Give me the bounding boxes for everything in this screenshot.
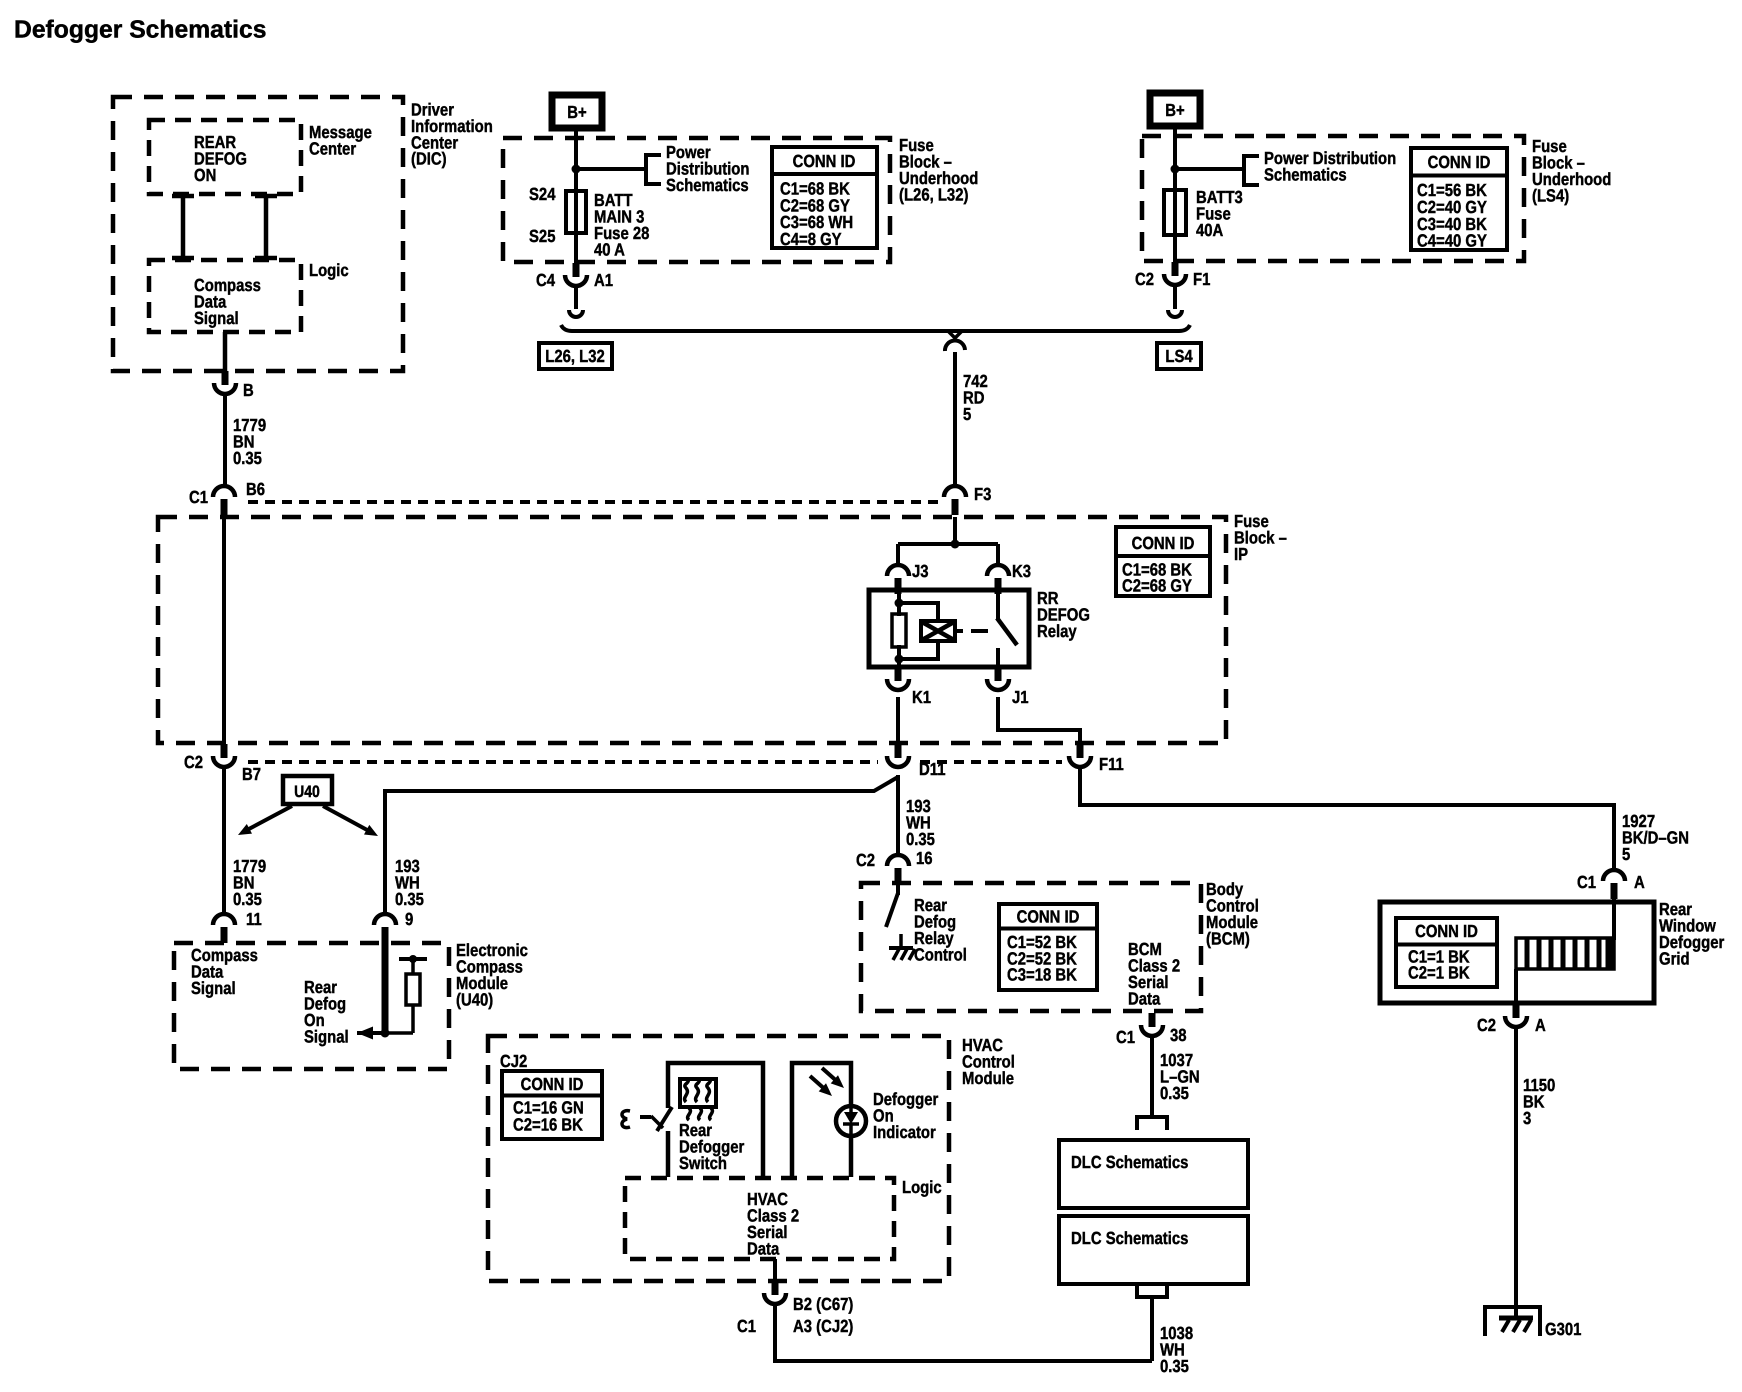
svg-text:(L26, L32): (L26, L32): [899, 185, 968, 205]
callout box U40: [283, 776, 332, 804]
battery feed B+ 2: [1150, 93, 1200, 126]
svg-text:C4=8 GY: C4=8 GY: [780, 229, 842, 249]
label wire 742 RD 5: [963, 371, 988, 424]
svg-text:C1: C1: [189, 487, 208, 507]
fuse block underhood L26 L32 dashed box: [503, 138, 890, 262]
svg-text:Relay: Relay: [1037, 621, 1077, 641]
relay solenoid X box: [921, 621, 955, 641]
svg-text:F1: F1: [1193, 269, 1211, 289]
label box L26 L32: [539, 343, 612, 369]
rear defogger switch blade: [651, 1107, 672, 1131]
wire F3 into relay feed: [953, 517, 957, 544]
svg-text:3: 3: [1523, 1108, 1532, 1128]
connector C2 A grid: [1477, 1004, 1546, 1035]
svg-text:C2: C2: [1477, 1015, 1496, 1035]
svg-text:IP: IP: [1234, 544, 1248, 564]
wire grid feed: [1612, 899, 1616, 940]
label wire 193 WH 0.35 left: [395, 856, 424, 909]
dashed link C2 row: [248, 760, 1062, 764]
label HVAC Control Module: [962, 1035, 1015, 1088]
svg-text:U40: U40: [294, 783, 320, 801]
svg-text:B7: B7: [242, 764, 261, 784]
label RR DEFOG Relay: [1037, 588, 1090, 641]
connector 9: [374, 909, 414, 943]
svg-text:C2: C2: [856, 850, 875, 870]
svg-text:CONN ID: CONN ID: [793, 151, 856, 171]
svg-text:Logic: Logic: [309, 260, 349, 280]
module HVAC dashed box: [488, 1036, 949, 1281]
connector K3: [987, 561, 1031, 594]
junction dot coil top: [895, 599, 904, 608]
wire grid to G301: [1514, 1027, 1518, 1319]
conn id table fuse block 1: [772, 147, 877, 249]
svg-text:B: B: [243, 380, 254, 400]
fuse block IP dashed box: [158, 517, 1226, 743]
junction dot relay feed: [951, 540, 960, 549]
DLC bracket top: [1137, 1117, 1167, 1130]
heater icon waves: [685, 1080, 713, 1120]
svg-text:11: 11: [246, 909, 262, 929]
connector J1: [987, 667, 1029, 707]
svg-text:(BCM): (BCM): [1206, 929, 1250, 949]
label Power Distribution Schematics 1: [666, 142, 749, 195]
svg-text:(U40): (U40): [456, 990, 493, 1010]
text Rear Defog Relay Control: [914, 895, 967, 965]
svg-text:Control: Control: [914, 945, 967, 965]
wire B+2 to fuse BATT3: [1173, 126, 1177, 192]
text Compass Data Signal (module): [191, 945, 258, 998]
svg-text:Grid: Grid: [1659, 949, 1690, 969]
svg-text:B+: B+: [567, 102, 586, 122]
label S24: [529, 184, 556, 204]
svg-text:C2: C2: [1135, 269, 1154, 289]
relay coil loop: [899, 603, 938, 659]
LED diode symbol: [843, 1107, 859, 1135]
HVAC logic dashed box: [625, 1178, 894, 1259]
label box LS4: [1157, 343, 1201, 369]
svg-text:Data: Data: [1128, 989, 1160, 1009]
svg-text:Signal: Signal: [304, 1027, 349, 1047]
svg-text:F3: F3: [974, 484, 992, 504]
wire D11 branch to pin 9: [385, 777, 898, 914]
svg-text:C1: C1: [1116, 1027, 1135, 1047]
svg-text:D11: D11: [919, 759, 946, 779]
relay switch blade: [997, 618, 1017, 645]
heater icon box: [680, 1079, 716, 1107]
svg-text:A: A: [1634, 872, 1645, 892]
svg-text:A3 (CJ2): A3 (CJ2): [793, 1316, 853, 1336]
wire B6 to B7: [222, 519, 226, 746]
svg-text:CONN ID: CONN ID: [1017, 907, 1080, 927]
svg-text:C2=16 BK: C2=16 BK: [513, 1114, 583, 1134]
fuse block underhood LS4 dashed box: [1142, 136, 1524, 261]
label wire 1779 BN 0.35 lower: [233, 856, 266, 909]
label G301: [1545, 1319, 1582, 1339]
wire B to C1-B6: [223, 394, 227, 486]
label Fuse Block IP: [1234, 511, 1287, 564]
svg-text:C3=18 BK: C3=18 BK: [1007, 965, 1077, 985]
wire C2F1 to bus splice: [1168, 285, 1182, 317]
junction dot coil bottom: [895, 655, 904, 664]
svg-text:Signal: Signal: [194, 308, 239, 328]
BCM relay control switch: [886, 884, 898, 927]
relay switch fixed contact upper: [996, 591, 1000, 619]
svg-text:B2 (C67): B2 (C67): [793, 1294, 853, 1314]
svg-text:Switch: Switch: [679, 1153, 727, 1173]
svg-text:DLC Schematics: DLC Schematics: [1071, 1228, 1189, 1248]
DLC bracket bottom: [1137, 1285, 1167, 1297]
conn id table BCM: [999, 904, 1097, 990]
svg-text:CONN ID: CONN ID: [521, 1074, 584, 1094]
wire DLC to 1038 WH: [1150, 1297, 1154, 1361]
svg-text:Indicator: Indicator: [873, 1122, 936, 1142]
svg-text:BK/D–GN: BK/D–GN: [1622, 828, 1689, 848]
connector 11: [213, 909, 262, 943]
rear defog on signal arrow: [357, 1027, 385, 1040]
wire fuse to C4: [574, 232, 578, 264]
BCM internal ground: [889, 934, 915, 960]
wire J1 to F11: [998, 697, 1080, 746]
LED light arrows: [810, 1068, 844, 1096]
label Logic (HVAC): [902, 1177, 942, 1197]
wire HVAC logic to B2: [773, 1259, 777, 1283]
label Defogger On Indicator: [873, 1089, 938, 1142]
svg-text:5: 5: [963, 404, 972, 424]
ground G301: [1485, 1307, 1540, 1336]
DIC logic box: [149, 260, 301, 332]
junction dot fuse 2 node: [1171, 165, 1180, 174]
wire power bus: [561, 325, 1190, 331]
svg-text:K1: K1: [912, 687, 931, 707]
switch actuator curl: [622, 1111, 630, 1128]
DIC internal bus bar left: [172, 194, 194, 260]
connector C1 A grid: [1577, 870, 1645, 899]
wire C1-38 to DLC: [1150, 1036, 1154, 1117]
svg-text:ON: ON: [194, 165, 216, 185]
callout arrow U40 right: [323, 806, 378, 836]
relay coil resistor: [892, 614, 906, 647]
wire relay coil bottom: [897, 645, 901, 667]
DIC message center box: [149, 120, 301, 194]
wire pin 9 internal: [382, 941, 389, 1033]
label BATT MAIN 3 Fuse 28 40 A: [594, 190, 650, 260]
rear defogger switch enclosure: [668, 1063, 763, 1177]
svg-text:Schematics: Schematics: [666, 175, 749, 195]
label CJ2: [500, 1051, 528, 1071]
svg-text:Signal: Signal: [191, 978, 236, 998]
connector F11: [1069, 744, 1124, 774]
svg-text:CONN ID: CONN ID: [1428, 152, 1491, 172]
wire to power distribution bracket 2: [1175, 167, 1244, 171]
svg-text:Data: Data: [747, 1239, 779, 1259]
text REAR DEFOG ON: [194, 132, 247, 185]
label Electronic Compass Module U40: [456, 940, 528, 1010]
svg-text:B+: B+: [1165, 100, 1184, 120]
connector B: [214, 371, 254, 400]
module BCM dashed box: [861, 883, 1201, 1011]
wire C4 to bus splice: [569, 286, 583, 317]
svg-text:C4=40 GY: C4=40 GY: [1417, 231, 1487, 251]
connector C4 A1: [536, 263, 613, 290]
relay RR DEFOG box: [869, 590, 1029, 667]
label wire 1150 BK 3: [1523, 1075, 1555, 1128]
svg-text:Center: Center: [309, 138, 356, 158]
LED indicator circle: [836, 1106, 866, 1136]
wire grid return: [1514, 969, 1518, 1006]
svg-text:C2=68 GY: C2=68 GY: [1122, 575, 1192, 595]
svg-text:CONN ID: CONN ID: [1415, 921, 1478, 941]
conn id table CJ2: [502, 1071, 602, 1139]
svg-text:S24: S24: [529, 184, 556, 204]
label Fuse Block Underhood LS4: [1532, 136, 1611, 206]
junction dot rear defog signal: [381, 1029, 390, 1038]
label Fuse Block Underhood L26 L32: [899, 135, 978, 205]
box DLC Schematics 2: [1059, 1216, 1248, 1284]
svg-text:Module: Module: [962, 1068, 1014, 1088]
box DLC Schematics 1: [1059, 1140, 1248, 1208]
power distribution bracket 2: [1244, 156, 1259, 185]
svg-text:Defogger Schematics: Defogger Schematics: [14, 17, 266, 44]
callout arrow U40 left: [238, 806, 292, 835]
text HVAC Class 2 Serial Data: [747, 1189, 799, 1259]
svg-text:LS4: LS4: [1165, 346, 1193, 366]
label wire 1779 BN 0.35 upper: [233, 415, 266, 468]
svg-text:CONN ID: CONN ID: [1132, 533, 1195, 553]
svg-text:9: 9: [405, 909, 414, 929]
wire relay feed split: [898, 544, 998, 566]
svg-text:16: 16: [916, 848, 933, 868]
defogger grid element: [1516, 938, 1614, 969]
connector C2 F1: [1135, 262, 1211, 289]
svg-text:0.35: 0.35: [1160, 1083, 1189, 1103]
text Compass Data Signal (DIC): [194, 275, 261, 328]
label BATT3 Fuse 40A: [1196, 187, 1243, 240]
svg-text:DLC Schematics: DLC Schematics: [1071, 1152, 1189, 1172]
label Logic (DIC): [309, 260, 349, 280]
power distribution bracket 1: [646, 155, 661, 184]
svg-text:C4: C4: [536, 270, 555, 290]
module DIC dashed box: [113, 97, 403, 371]
svg-text:C1: C1: [1577, 872, 1596, 892]
label Message Center: [309, 122, 372, 158]
connector C2 B7: [184, 744, 261, 784]
dashed link C1 to F3: [248, 500, 941, 504]
wire 742 RD to F3: [953, 352, 957, 486]
conn id table fuse block 2: [1411, 148, 1507, 251]
svg-text:A: A: [1535, 1015, 1546, 1035]
svg-text:F11: F11: [1099, 754, 1124, 774]
DIC internal bus bar right: [255, 194, 277, 260]
connector C1 38: [1116, 1013, 1187, 1047]
svg-text:5: 5: [1622, 844, 1631, 864]
connector J3: [887, 561, 929, 594]
wire K1 to D11: [896, 697, 900, 746]
svg-text:Logic: Logic: [902, 1177, 942, 1197]
svg-text:C2=1 BK: C2=1 BK: [1408, 963, 1470, 983]
wire to power distribution bracket 1: [576, 167, 646, 171]
label Driver Information Center (DIC): [411, 100, 493, 169]
wire B+ to fuse 28: [574, 128, 578, 192]
connector C2 16: [856, 848, 933, 884]
conn id table grid: [1396, 918, 1497, 987]
wire HVAC to DLC junction: [775, 1304, 1152, 1361]
wire DIC logic to connector B: [223, 332, 228, 372]
wire relay coil top: [897, 591, 901, 616]
svg-text:0.35: 0.35: [906, 829, 935, 849]
text BCM Class 2 Serial Data: [1128, 939, 1180, 1009]
svg-text:0.35: 0.35: [1160, 1356, 1189, 1376]
conn id table fuse block IP: [1116, 527, 1210, 596]
svg-text:B6: B6: [246, 479, 265, 499]
connector C1 B6: [189, 479, 265, 515]
label wire 1038 WH 0.35: [1160, 1323, 1193, 1376]
wire F11 to grid: [1080, 767, 1614, 870]
connector K1: [887, 667, 931, 707]
label wire 1927 BK/D-GN 5: [1622, 811, 1689, 864]
fuse BATT MAIN 3 Fuse 28: [566, 190, 586, 234]
svg-text:0.35: 0.35: [233, 448, 262, 468]
svg-text:G301: G301: [1545, 1319, 1582, 1339]
label S25: [529, 226, 556, 246]
fuse BATT3 40A: [1164, 188, 1186, 237]
svg-text:0.35: 0.35: [395, 889, 424, 909]
wire D11 to C2-16: [896, 775, 900, 855]
text Rear Defog On Signal: [304, 977, 349, 1047]
label Power Distribution Schematics 2: [1264, 148, 1396, 184]
wire fuse2 to C2: [1173, 233, 1177, 263]
module rear window defogger grid box: [1380, 902, 1654, 1003]
connector B2 A3: [737, 1281, 853, 1336]
svg-text:K3: K3: [1012, 561, 1031, 581]
text Rear Defogger Switch: [679, 1120, 744, 1173]
relay actuator dashed link: [955, 629, 988, 633]
svg-text:CJ2: CJ2: [500, 1051, 528, 1071]
wire B7 to pin 11: [222, 767, 226, 914]
svg-text:C1: C1: [737, 1316, 756, 1336]
svg-text:0.35: 0.35: [233, 889, 262, 909]
defogger on indicator enclosure: [792, 1063, 851, 1177]
switch actuator dashes: [640, 1115, 651, 1119]
connector D11: [887, 744, 946, 779]
title: [14, 17, 266, 44]
svg-text:S25: S25: [529, 226, 556, 246]
svg-text:38: 38: [1170, 1025, 1187, 1045]
module electronic compass dashed box: [174, 943, 449, 1069]
junction dot S24 node: [572, 165, 581, 174]
compass module pullup resistor: [385, 955, 427, 1033]
svg-text:40A: 40A: [1196, 220, 1224, 240]
svg-text:(LS4): (LS4): [1532, 186, 1569, 206]
svg-text:Schematics: Schematics: [1264, 164, 1347, 184]
svg-text:A1: A1: [594, 270, 613, 290]
svg-text:J3: J3: [912, 561, 929, 581]
battery feed B+ 1: [552, 95, 602, 128]
svg-text:J1: J1: [1012, 687, 1029, 707]
label Rear Window Defogger Grid: [1659, 899, 1724, 969]
svg-text:(DIC): (DIC): [411, 149, 447, 169]
svg-text:40 A: 40 A: [594, 240, 625, 260]
label wire 1037 L-GN 0.35: [1160, 1050, 1200, 1103]
relay switch fixed contact lower: [996, 648, 1000, 667]
label Body Control Module BCM: [1206, 879, 1259, 949]
connector F3: [944, 484, 992, 515]
svg-text:L26, L32: L26, L32: [545, 346, 605, 366]
svg-text:C2: C2: [184, 752, 203, 772]
bus tap splice to F3: [945, 331, 965, 351]
label wire 193 WH 0.35 right: [906, 796, 935, 849]
